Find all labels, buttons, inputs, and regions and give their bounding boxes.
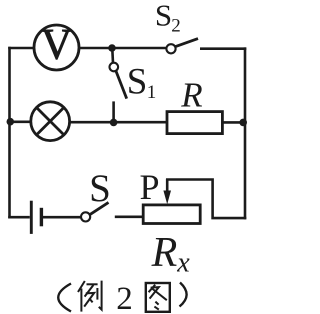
node D (right wire, R row): [239, 119, 247, 127]
svg-text:2: 2: [116, 281, 133, 314]
svg-text:P: P: [139, 167, 159, 207]
caption close paren: [180, 283, 187, 307]
switch S2: [166, 39, 198, 54]
caption hanzi LI (example): [78, 281, 102, 312]
rheostat Rx body: [143, 205, 200, 224]
resistor R: [167, 112, 222, 134]
svg-text:S: S: [155, 0, 172, 33]
wire switch S to rheostat: [115, 216, 145, 219]
switch S1: [110, 49, 127, 123]
voltmeter V: [34, 22, 79, 71]
node B (left wire, lamp row): [7, 118, 15, 126]
wire bottom-left horizontal: [8, 216, 30, 219]
wire left vertical: [8, 47, 11, 219]
caption hanzi TU (figure): [146, 283, 170, 312]
switch S: [81, 202, 109, 221]
svg-text:S: S: [89, 167, 111, 210]
wire lamp to resistor R: [70, 121, 168, 124]
wire slider to right vertical: [166, 180, 246, 219]
label Rx: [151, 230, 191, 279]
wire top-right horizontal: [200, 47, 246, 50]
rheostat slider arrow P: [163, 179, 171, 204]
wire voltmeter to S2: [79, 47, 168, 50]
label S1: [127, 62, 157, 104]
wire R to right vertical: [222, 121, 246, 124]
svg-text:S: S: [127, 62, 148, 103]
battery: [31, 201, 41, 234]
svg-text:x: x: [176, 248, 190, 279]
svg-text:R: R: [151, 230, 178, 276]
node C (S1 bottom junction): [110, 119, 118, 127]
wire right vertical: [244, 47, 247, 219]
label S2: [155, 0, 181, 37]
wire left to lamp: [9, 121, 32, 124]
svg-text:1: 1: [147, 82, 157, 103]
lamp (circle with X): [31, 102, 70, 141]
caption open paren: [58, 284, 71, 312]
svg-text:R: R: [180, 76, 202, 115]
node A (junction below S2): [108, 44, 116, 52]
wire top-left horizontal: [8, 47, 34, 50]
wire battery to switch S: [43, 216, 81, 219]
svg-text:2: 2: [171, 16, 181, 37]
svg-text:V: V: [41, 22, 72, 69]
